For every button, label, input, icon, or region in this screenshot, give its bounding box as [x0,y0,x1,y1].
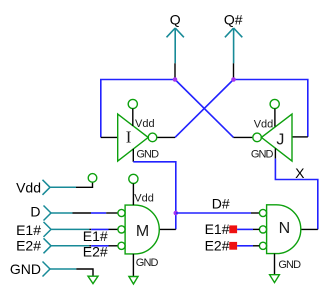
wire M input 3 stub (black) [109,245,118,247]
input port GND [43,262,77,277]
output port Q (teal arrow) [167,28,184,63]
svg-text:E1#: E1# [205,221,230,237]
wire E2# row (black stub) [89,245,91,247]
svg-text:GND: GND [251,149,274,161]
input port E2# [44,238,90,253]
svg-text:GND: GND [136,148,159,160]
wire E2# to N (blue) [237,245,253,247]
wire N input 2 stub (black) [253,228,259,230]
ground (port GND arrow) [88,276,98,283]
wire E1# to N (blue) [237,228,253,230]
svg-text:E2#: E2# [205,237,230,253]
wire (Q pin stub, black) [174,63,176,79]
wire M input 2 stub (black) [109,228,118,230]
wire D row (blue net) [91,212,106,214]
wire E1# row (black stub) [89,228,91,230]
wire M output vertical [175,213,177,229]
wire N GND pin stub [274,254,276,275]
input port Vdd [43,180,77,195]
svg-text:N: N [279,220,291,237]
svg-text:Q: Q [170,11,181,27]
svg-text:E2#: E2# [83,244,108,260]
wire E1# row (blue net) [91,228,108,230]
wire J output stub (black) [234,136,253,138]
svg-text:E2#: E2# [16,238,41,254]
wire J GND pin stub (black) [274,148,276,158]
svg-text:D#: D# [212,196,230,212]
wire Q net diagonal to inverter J output [175,80,234,138]
terminal Vdd (open circle) [88,174,97,183]
svg-text:I: I [126,127,132,146]
wire Q# net: top-right loop to inverter J input [234,80,308,137]
inverter I [118,114,157,161]
junction Q# [231,77,236,82]
wire (Q# pin stub, black) [233,63,235,79]
svg-text:E1#: E1# [16,222,41,238]
wire N input 3 stub (black) [253,245,259,247]
wire D row (black stub) [73,212,92,214]
wire M GND pin stub [132,254,134,277]
inverter J [253,114,292,161]
svg-text:Vdd: Vdd [254,118,274,130]
wire D# net to N input [176,212,251,214]
wire I GND pin stub (black) [132,149,134,162]
wire M output stub (black) [159,228,176,230]
terminal Vdd of I [128,99,137,108]
wire net from I GND to M output junction [133,162,176,213]
wire Vdd terminal stub (black) [76,182,93,187]
wire N input 1 stub (black) [251,212,259,214]
wire J Vdd pin stub [274,109,276,127]
svg-text:D: D [30,204,40,220]
svg-text:M: M [136,223,149,240]
input port D [44,206,73,221]
wire GND terminal stub (black) [76,269,93,276]
svg-text:GND: GND [10,261,41,277]
svg-text:Vdd: Vdd [135,118,155,130]
wire M input 1 stub (black) [106,212,118,214]
wire net X from J GND to N output [275,159,317,230]
wire I Vdd pin stub [132,109,134,126]
wire J input stub (black) [292,136,308,138]
wire Q net: top-left loop to inverter I input [101,80,175,138]
wire Q# net diagonal to inverter I output [175,80,234,138]
tristate gate M [118,205,159,254]
wire I output stub (black) [157,136,175,138]
svg-text:J: J [276,132,284,149]
svg-text:Vdd: Vdd [134,192,154,204]
tristate gate N [259,205,300,254]
wire I input stub (black) [101,136,118,138]
unconnected pin marker E2# (red square) [229,242,237,250]
terminal Vdd of M [129,174,138,183]
terminal Vdd of J [270,99,279,108]
ground (M GND arrow) [129,277,138,285]
output port Q# (teal arrow) [225,28,242,63]
ground (N GND arrow) [270,275,280,283]
svg-text:E1#: E1# [83,228,108,244]
junction Q [173,77,178,82]
unconnected pin marker E1# (red square) [229,225,237,233]
wire M Vdd pin stub [132,184,134,206]
svg-text:GND: GND [278,259,301,271]
svg-text:X: X [295,165,305,181]
wire N output stub (black) [301,228,318,230]
wire E2# row (blue net) [91,245,108,247]
junction D# [174,211,179,216]
input port E1# [44,222,90,237]
svg-text:GND: GND [136,257,159,269]
svg-text:Q#: Q# [224,11,243,27]
svg-text:Vdd: Vdd [16,180,41,196]
